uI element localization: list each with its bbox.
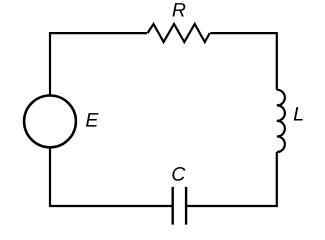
label E — [86, 113, 99, 126]
source E — [24, 96, 76, 148]
resistor R — [148, 24, 210, 42]
label L — [294, 107, 303, 120]
inductor L — [277, 90, 285, 152]
wire — [50, 148, 172, 206]
label C — [172, 167, 185, 181]
wire — [210, 33, 277, 90]
capacitor C — [173, 187, 186, 225]
wire — [187, 152, 276, 206]
label R — [173, 3, 186, 16]
wire — [50, 33, 147, 94]
